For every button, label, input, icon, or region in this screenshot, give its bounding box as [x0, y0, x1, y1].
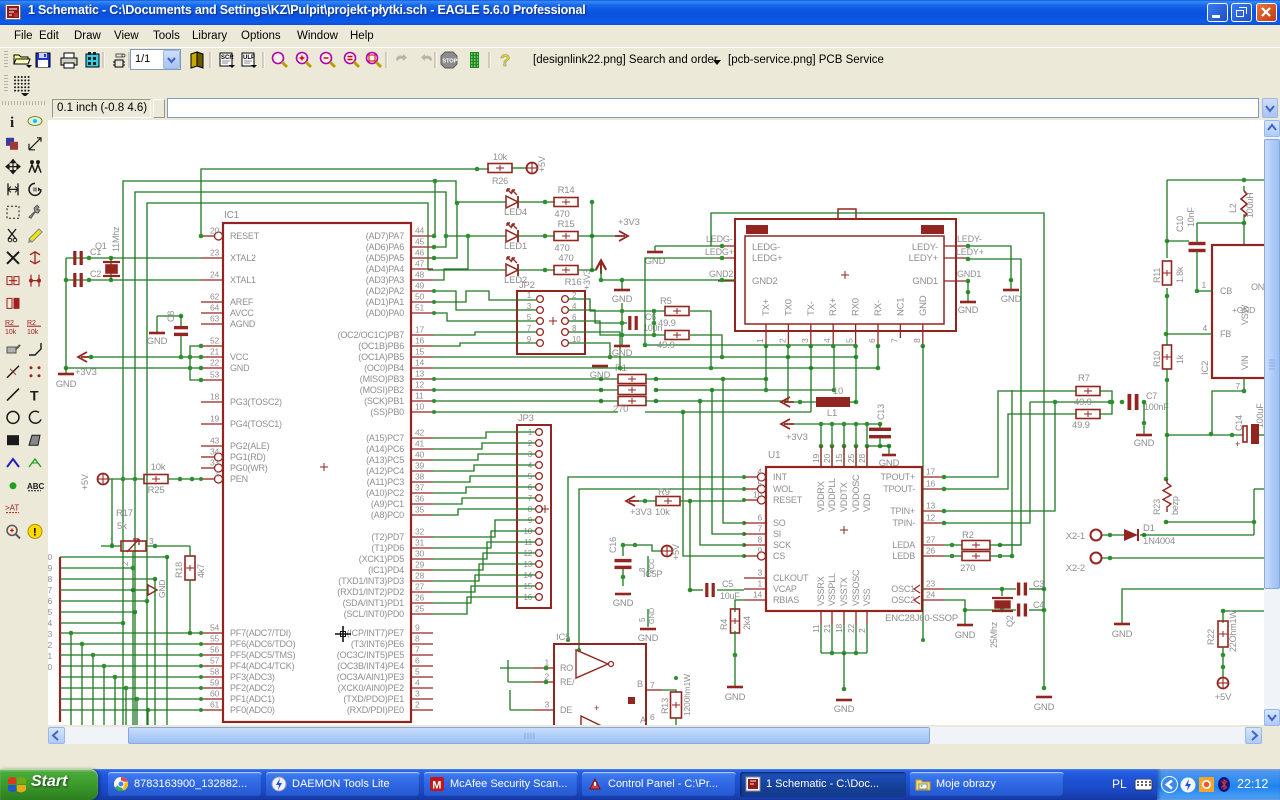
svg-text:46: 46	[415, 248, 425, 258]
svg-text:6: 6	[867, 338, 877, 343]
svg-text:4: 4	[415, 678, 420, 688]
svg-text:8: 8	[48, 574, 52, 584]
svg-text:C16: C16	[608, 537, 618, 553]
svg-text:(XCK1)PD5: (XCK1)PD5	[359, 554, 404, 564]
svg-text:25: 25	[846, 453, 856, 463]
svg-text:1.8k: 1.8k	[1175, 266, 1185, 283]
svg-text:37: 37	[415, 483, 425, 493]
svg-text:470: 470	[558, 253, 573, 264]
svg-text:8: 8	[757, 535, 762, 545]
svg-text:1: 1	[1201, 280, 1206, 290]
svg-text:28: 28	[857, 453, 867, 463]
svg-text:59: 59	[210, 678, 220, 688]
svg-text:TPIN-: TPIN-	[893, 518, 916, 528]
svg-text:GND2: GND2	[709, 269, 733, 279]
svg-text:JP2: JP2	[519, 280, 535, 291]
svg-text:+5V: +5V	[537, 156, 547, 172]
svg-text:LEDG-: LEDG-	[706, 234, 733, 244]
svg-text:VCC: VCC	[647, 558, 656, 574]
svg-text:10k: 10k	[493, 152, 508, 162]
svg-text:20: 20	[210, 226, 220, 236]
svg-text:CS: CS	[773, 551, 785, 561]
svg-text:0: 0	[48, 552, 52, 562]
svg-text:PF6(ADC6/TDO): PF6(ADC6/TDO)	[230, 639, 296, 649]
svg-text:L1: L1	[827, 408, 837, 419]
svg-text:RO: RO	[560, 663, 573, 673]
svg-text:18: 18	[210, 392, 220, 402]
svg-text:30: 30	[415, 549, 425, 559]
svg-text:56: 56	[210, 645, 220, 655]
svg-text:GND: GND	[1134, 438, 1155, 449]
svg-text:IC5: IC5	[556, 632, 570, 643]
svg-text:35: 35	[415, 505, 425, 515]
svg-text:(AD4)PA4: (AD4)PA4	[366, 264, 404, 274]
svg-text:63: 63	[210, 314, 220, 324]
svg-text:(RXD1/INT2)PD2: (RXD1/INT2)PD2	[337, 587, 404, 597]
svg-text:R4: R4	[719, 619, 729, 630]
svg-text:10k: 10k	[27, 329, 39, 336]
svg-text:RX-: RX-	[873, 300, 884, 316]
svg-text:(OC3A/AIN1)PE3: (OC3A/AIN1)PE3	[337, 672, 404, 682]
svg-text:(MISO)PB3: (MISO)PB3	[360, 374, 404, 384]
svg-text:STOP: STOP	[443, 59, 458, 65]
svg-text:VDDTX: VDDTX	[839, 482, 849, 512]
svg-text:M: M	[432, 780, 441, 792]
svg-text:15: 15	[415, 347, 425, 357]
svg-text:VDDOSC: VDDOSC	[851, 474, 861, 512]
svg-text:R7: R7	[1078, 373, 1090, 384]
svg-text:bezp: bezp	[1170, 496, 1180, 515]
svg-text:(SCL/INT0)PD0: (SCL/INT0)PD0	[344, 609, 405, 619]
svg-text:6: 6	[650, 712, 655, 722]
svg-text:+: +	[1235, 439, 1240, 449]
svg-text:OSC1: OSC1	[891, 584, 915, 594]
svg-text:R9: R9	[658, 487, 670, 498]
svg-text:IC1: IC1	[224, 210, 240, 221]
svg-text:GND2: GND2	[752, 276, 778, 287]
svg-text:(T1)PD6: (T1)PD6	[371, 543, 404, 553]
svg-text:R2: R2	[962, 530, 974, 541]
svg-text:PF2(ADC2): PF2(ADC2)	[230, 683, 275, 693]
svg-text:49.9: 49.9	[657, 340, 675, 351]
svg-text:5: 5	[845, 338, 855, 343]
svg-text:GND1: GND1	[957, 269, 981, 279]
svg-text:TPIN+: TPIN+	[890, 506, 915, 516]
svg-text:(RXD/PDI)PE0: (RXD/PDI)PE0	[347, 705, 404, 715]
svg-text:RESET: RESET	[773, 495, 803, 505]
svg-text:LEDY-: LEDY-	[957, 234, 982, 244]
svg-text:SI: SI	[773, 529, 781, 539]
svg-text:38: 38	[415, 472, 425, 482]
svg-text:SCK: SCK	[773, 540, 791, 550]
svg-text:SO: SO	[773, 518, 786, 528]
svg-text:1200hm1W: 1200hm1W	[682, 674, 692, 716]
svg-text:18: 18	[834, 623, 844, 633]
svg-text:(AD3)PA3: (AD3)PA3	[366, 275, 404, 285]
svg-text:AREF: AREF	[230, 297, 254, 307]
svg-text:(OC3B/INT4)PE4: (OC3B/INT4)PE4	[337, 661, 404, 671]
svg-text:GND: GND	[725, 692, 746, 703]
svg-text:7: 7	[889, 338, 899, 343]
svg-text:R11: R11	[1152, 268, 1162, 283]
svg-text:ULP: ULP	[243, 55, 255, 61]
svg-text:4: 4	[757, 467, 762, 477]
svg-text:64: 64	[210, 303, 220, 313]
svg-text:2: 2	[777, 338, 787, 343]
svg-text:44: 44	[415, 226, 425, 236]
svg-text:7: 7	[1235, 381, 1240, 391]
svg-text:32: 32	[415, 527, 425, 537]
svg-text:8: 8	[415, 634, 420, 644]
svg-text:3: 3	[800, 338, 810, 343]
svg-text:+3V3: +3V3	[582, 269, 592, 290]
svg-text:10k: 10k	[655, 507, 670, 518]
svg-text:PG1(RD): PG1(RD)	[230, 452, 266, 462]
svg-text:12: 12	[415, 380, 425, 390]
svg-text:C2: C2	[90, 269, 101, 279]
svg-text:PF5(ADC5/TMS): PF5(ADC5/TMS)	[230, 650, 296, 660]
svg-text:C13: C13	[876, 404, 886, 420]
svg-text:22: 22	[846, 623, 856, 633]
svg-text:36: 36	[415, 494, 425, 504]
svg-text:Q2: Q2	[1005, 615, 1015, 627]
svg-text:(AD6)PA6: (AD6)PA6	[366, 242, 404, 252]
svg-text:ENC28J60-SSOP: ENC28J60-SSOP	[885, 613, 958, 624]
svg-text:D1: D1	[1143, 523, 1155, 534]
svg-text:1: 1	[527, 291, 532, 300]
svg-text:(OC1A)PB5: (OC1A)PB5	[358, 352, 404, 362]
svg-text:3: 3	[757, 568, 762, 578]
svg-text:LEDG+: LEDG+	[705, 247, 734, 257]
svg-text:3: 3	[544, 700, 549, 710]
svg-text:(OC0)PB4: (OC0)PB4	[364, 363, 404, 373]
svg-text:(T2)PD7: (T2)PD7	[371, 532, 404, 542]
svg-text:23: 23	[926, 579, 936, 589]
svg-text:B: B	[637, 679, 643, 689]
svg-text:LEDG-: LEDG-	[752, 242, 780, 253]
svg-text:(ICP/INT7)PE7: (ICP/INT7)PE7	[347, 628, 405, 638]
svg-text:25Mhz: 25Mhz	[989, 621, 999, 648]
svg-text:22Ohm1W: 22Ohm1W	[1228, 610, 1238, 652]
svg-text:(OC3C/INT5)PE5: (OC3C/INT5)PE5	[337, 650, 404, 660]
svg-text:4: 4	[822, 338, 832, 343]
svg-text:LED4: LED4	[504, 207, 527, 218]
svg-text:GND: GND	[1034, 702, 1055, 713]
svg-text:17: 17	[415, 325, 425, 335]
svg-text:+5V: +5V	[671, 544, 681, 560]
svg-text:6: 6	[757, 513, 762, 523]
svg-text:16: 16	[926, 479, 936, 489]
svg-text:DE: DE	[560, 705, 572, 715]
svg-text:+3V3: +3V3	[618, 217, 640, 228]
svg-text:41: 41	[415, 439, 425, 449]
svg-text:2k4: 2k4	[742, 616, 752, 630]
svg-text:VSSRX: VSSRX	[816, 576, 826, 606]
svg-text:49.9: 49.9	[1072, 420, 1090, 431]
svg-text:GND: GND	[1112, 629, 1133, 640]
svg-text:1: 1	[214, 469, 219, 479]
svg-text:PG4(TOSC1): PG4(TOSC1)	[230, 419, 282, 429]
svg-text:+GND: +GND	[1232, 305, 1255, 315]
svg-text:100uH: 100uH	[1245, 192, 1255, 218]
svg-text:+5V: +5V	[80, 474, 90, 490]
svg-text:+3V3: +3V3	[630, 507, 652, 518]
svg-text:VCAP: VCAP	[773, 584, 797, 594]
svg-text:12: 12	[926, 513, 936, 523]
svg-text:(MOSI)PB2: (MOSI)PB2	[360, 385, 404, 395]
svg-text:7: 7	[757, 524, 762, 534]
svg-text:GND: GND	[157, 580, 167, 598]
svg-text:47: 47	[415, 259, 425, 269]
svg-text:GND: GND	[918, 295, 929, 316]
svg-text:5k: 5k	[117, 521, 127, 532]
svg-text:GND: GND	[955, 630, 976, 641]
svg-text:PF7(ADC7/TDI): PF7(ADC7/TDI)	[230, 628, 291, 638]
svg-text:TPOUT+: TPOUT+	[880, 472, 915, 482]
svg-text:XTAL2: XTAL2	[230, 253, 256, 263]
svg-text:RBIAS: RBIAS	[773, 595, 799, 605]
svg-text:VSSOSC: VSSOSC	[851, 569, 861, 606]
svg-text:AGND: AGND	[230, 319, 256, 329]
svg-text:(TXD/PDO)PE1: (TXD/PDO)PE1	[343, 694, 404, 704]
svg-text:(A13)PC5: (A13)PC5	[366, 455, 404, 465]
svg-text:PEN: PEN	[230, 474, 248, 484]
svg-text:C8: C8	[166, 311, 176, 322]
svg-text:?: ?	[500, 51, 510, 70]
svg-text:VSSTX: VSSTX	[839, 577, 849, 606]
svg-text:20: 20	[822, 453, 832, 463]
svg-text:TPOUT-: TPOUT-	[883, 484, 915, 494]
svg-text:PF0(ADC0): PF0(ADC0)	[230, 705, 275, 715]
svg-text:8: 8	[638, 567, 647, 572]
svg-text:TX0: TX0	[783, 299, 794, 316]
svg-text:(A14)PC6: (A14)PC6	[366, 444, 404, 454]
svg-text:3: 3	[149, 536, 154, 546]
svg-text:22: 22	[210, 358, 220, 368]
svg-text:R23: R23	[1152, 499, 1162, 515]
svg-text:10: 10	[833, 386, 843, 397]
svg-text:9: 9	[757, 546, 762, 556]
svg-text:i: i	[10, 115, 14, 131]
svg-text:49: 49	[415, 281, 425, 291]
svg-text:SCR: SCR	[221, 55, 234, 61]
svg-text:10k: 10k	[151, 462, 166, 473]
svg-text:(A10)PC2: (A10)PC2	[366, 488, 404, 498]
svg-text:R18: R18	[174, 562, 184, 578]
svg-text:(AD0)PA0: (AD0)PA0	[366, 308, 404, 318]
svg-text:PF4(ADC4/TCK): PF4(ADC4/TCK)	[230, 661, 295, 671]
svg-text:1: 1	[755, 338, 765, 343]
svg-text:(XCK0/AIN0)PE2: (XCK0/AIN0)PE2	[338, 683, 404, 693]
svg-text:IC2: IC2	[1200, 361, 1211, 375]
svg-text:15: 15	[834, 453, 844, 463]
svg-text:60: 60	[210, 689, 220, 699]
svg-text:C10: C10	[1175, 216, 1185, 232]
svg-text:57: 57	[210, 656, 220, 666]
svg-text:VIN: VIN	[1240, 356, 1250, 370]
svg-text:7: 7	[650, 680, 655, 690]
svg-text:R14: R14	[558, 185, 575, 196]
svg-text:17: 17	[926, 467, 936, 477]
svg-text:R17: R17	[116, 508, 133, 519]
svg-text:GND: GND	[879, 458, 900, 469]
svg-text:52: 52	[210, 336, 220, 346]
svg-text:29: 29	[415, 560, 425, 570]
svg-text:R10: R10	[1152, 351, 1162, 367]
svg-text:14: 14	[753, 590, 763, 600]
svg-text:R5: R5	[660, 296, 672, 307]
svg-text:21: 21	[822, 623, 832, 633]
svg-text:34: 34	[210, 447, 220, 457]
svg-text:270: 270	[613, 404, 628, 415]
svg-text:(SDA/INT1)PD1: (SDA/INT1)PD1	[343, 598, 405, 608]
svg-text:T: T	[30, 388, 39, 404]
svg-text:58: 58	[210, 667, 220, 677]
svg-text:43: 43	[210, 436, 220, 446]
svg-text:(SS)PB0: (SS)PB0	[370, 407, 404, 417]
svg-text:53: 53	[210, 370, 220, 380]
svg-text:WOL: WOL	[773, 484, 793, 494]
svg-text:PF1(ADC1): PF1(ADC1)	[230, 694, 275, 704]
svg-text:23: 23	[210, 248, 220, 258]
svg-text:XTAL1: XTAL1	[230, 275, 256, 285]
svg-text:ON: ON	[1251, 282, 1264, 292]
svg-text:!: !	[33, 526, 37, 538]
svg-text:26: 26	[415, 593, 425, 603]
svg-text:R26: R26	[492, 176, 508, 186]
svg-text:27: 27	[926, 535, 936, 545]
svg-text:(TXD1/INT3)PD3: (TXD1/INT3)PD3	[338, 576, 404, 586]
svg-text:GND: GND	[147, 336, 168, 347]
svg-text:LEDA: LEDA	[892, 540, 915, 550]
svg-text:R15: R15	[558, 219, 575, 230]
svg-text:2: 2	[415, 700, 420, 710]
svg-text:(A15)PC7: (A15)PC7	[366, 433, 404, 443]
svg-text:LEDB: LEDB	[892, 551, 915, 561]
svg-text:GND1: GND1	[912, 276, 938, 287]
svg-text:AVCC: AVCC	[230, 308, 254, 318]
svg-text:R13: R13	[660, 698, 670, 714]
svg-text:INT: INT	[773, 472, 788, 482]
svg-text:LEDG+: LEDG+	[752, 253, 783, 264]
svg-text:51: 51	[415, 303, 425, 313]
svg-text:LEDY+: LEDY+	[956, 247, 984, 257]
svg-text:R25: R25	[148, 485, 165, 496]
svg-text:49.9: 49.9	[658, 318, 676, 329]
svg-text:+3V3: +3V3	[786, 432, 808, 443]
svg-text:1N4004: 1N4004	[1143, 536, 1175, 547]
svg-text:GND: GND	[638, 633, 659, 644]
svg-text:40: 40	[415, 450, 425, 460]
svg-text:10: 10	[753, 490, 763, 500]
svg-text:(OC1B)PB6: (OC1B)PB6	[358, 341, 404, 351]
svg-text:0: 0	[48, 662, 52, 672]
svg-text:(AD5)PA5: (AD5)PA5	[366, 253, 404, 263]
svg-text:+5V: +5V	[1215, 692, 1232, 703]
svg-text:5: 5	[757, 479, 762, 489]
svg-text:GND: GND	[612, 294, 633, 305]
svg-text:48: 48	[415, 270, 425, 280]
svg-text:49.9: 49.9	[1074, 397, 1092, 408]
svg-text:RE/: RE/	[560, 677, 575, 687]
svg-text:PG2(ALE): PG2(ALE)	[230, 441, 270, 451]
svg-text:2: 2	[48, 640, 52, 650]
svg-text:R16: R16	[565, 277, 582, 288]
svg-text:1k: 1k	[1175, 354, 1185, 364]
svg-text:R22: R22	[1206, 629, 1216, 645]
svg-text:3: 3	[48, 629, 52, 639]
svg-text:6: 6	[48, 596, 52, 606]
svg-text:9: 9	[415, 623, 420, 633]
svg-text:100nF: 100nF	[1144, 402, 1169, 412]
svg-text:GND: GND	[647, 607, 656, 624]
svg-text:10nF: 10nF	[1186, 207, 1196, 227]
svg-text:>AT: >AT	[5, 504, 19, 513]
svg-text:39: 39	[415, 461, 425, 471]
svg-text:(A11)PC3: (A11)PC3	[367, 477, 404, 487]
svg-text:OSC2: OSC2	[891, 595, 915, 605]
svg-text:C7: C7	[1146, 391, 1157, 401]
svg-text:10: 10	[415, 402, 425, 412]
svg-text:(AD1)PA1: (AD1)PA1	[366, 297, 404, 307]
svg-text:C3: C3	[1033, 579, 1044, 589]
svg-text:RX+: RX+	[828, 297, 839, 316]
svg-text:PG3(TOSC2): PG3(TOSC2)	[230, 397, 282, 407]
svg-text:27: 27	[415, 582, 425, 592]
svg-text:1: 1	[757, 579, 762, 589]
svg-text:11Mhz: 11Mhz	[111, 226, 121, 252]
svg-text:LEDY-: LEDY-	[912, 242, 938, 253]
svg-text:2: 2	[120, 561, 130, 566]
svg-text:(A9)PC1: (A9)PC1	[371, 499, 404, 509]
svg-text:U1: U1	[768, 450, 781, 461]
svg-text:(T3/INT6)PE6: (T3/INT6)PE6	[351, 639, 404, 649]
svg-text:PF3(ADC3): PF3(ADC3)	[230, 672, 275, 682]
svg-text:(AD7)PA7: (AD7)PA7	[366, 231, 404, 241]
svg-text:45: 45	[415, 237, 425, 247]
svg-text:7: 7	[48, 585, 52, 595]
svg-text:11: 11	[811, 624, 821, 633]
svg-text:1: 1	[48, 651, 52, 661]
svg-text:(AD2)PA2: (AD2)PA2	[366, 286, 404, 296]
svg-text:C4: C4	[1033, 600, 1044, 610]
svg-text:L2: L2	[1228, 203, 1238, 213]
svg-text:31: 31	[415, 538, 425, 548]
svg-text:3: 3	[415, 689, 420, 699]
svg-text:RESET: RESET	[230, 231, 260, 241]
svg-text:Q1: Q1	[95, 241, 107, 251]
svg-text:TX+: TX+	[761, 298, 772, 316]
svg-text:(IC1)PD4: (IC1)PD4	[368, 565, 404, 575]
svg-text:270: 270	[960, 563, 975, 574]
svg-text:A: A	[640, 715, 646, 725]
svg-text:PG0(WR): PG0(WR)	[230, 463, 268, 473]
svg-text:VDDRX: VDDRX	[816, 481, 826, 512]
svg-text:7: 7	[415, 645, 420, 655]
svg-text:X2-2: X2-2	[1066, 563, 1085, 574]
svg-text:+3V3: +3V3	[75, 367, 97, 378]
svg-text:(OC2/OC1C)PB7: (OC2/OC1C)PB7	[338, 330, 405, 340]
svg-text:24: 24	[926, 590, 936, 600]
svg-text:33: 33	[210, 458, 220, 468]
svg-text:42: 42	[415, 428, 425, 438]
svg-text:28: 28	[415, 571, 425, 581]
svg-text:10k: 10k	[5, 329, 17, 336]
svg-text:VCC: VCC	[230, 352, 249, 362]
svg-text:13: 13	[415, 369, 425, 379]
svg-text:GND: GND	[958, 305, 979, 316]
svg-text:+: +	[594, 703, 599, 713]
